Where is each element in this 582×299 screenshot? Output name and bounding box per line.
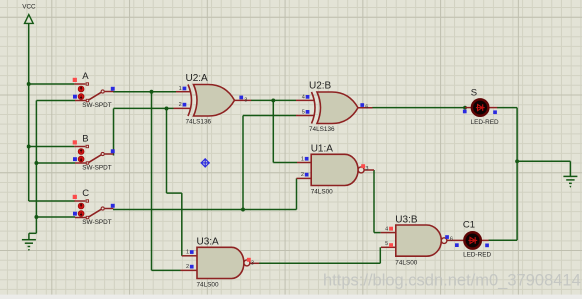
svg-text:LED-RED: LED-RED (463, 252, 491, 259)
svg-text:74LS00: 74LS00 (197, 282, 219, 289)
svg-text:74LS00: 74LS00 (395, 259, 417, 266)
svg-text:74LS136: 74LS136 (186, 119, 212, 126)
svg-text:SW-SPDT: SW-SPDT (82, 164, 111, 171)
svg-text:S: S (471, 87, 477, 98)
svg-text:5: 5 (385, 241, 388, 247)
svg-text:1: 1 (301, 156, 304, 162)
svg-text:2: 2 (186, 264, 189, 270)
svg-text:A: A (82, 71, 89, 82)
svg-text:LED-RED: LED-RED (471, 119, 499, 126)
svg-text:U1:A: U1:A (311, 144, 334, 155)
svg-text:74LS136: 74LS136 (309, 126, 335, 133)
svg-text:B: B (82, 134, 88, 145)
svg-text:https://blog.csdn.net/m0_37908: https://blog.csdn.net/m0_37908414 (323, 272, 581, 290)
svg-text:C: C (82, 188, 89, 199)
svg-text:1: 1 (186, 250, 189, 256)
svg-text:2: 2 (301, 172, 304, 178)
svg-text:74LS00: 74LS00 (311, 189, 333, 196)
svg-text:6: 6 (450, 236, 453, 242)
svg-text:U3:A: U3:A (197, 237, 220, 248)
svg-text:6: 6 (365, 105, 368, 111)
svg-text:SW-SPDT: SW-SPDT (82, 102, 111, 109)
svg-text:3: 3 (365, 166, 368, 172)
svg-text:2: 2 (179, 102, 182, 108)
svg-text:3: 3 (244, 98, 247, 104)
svg-text:3: 3 (251, 260, 254, 266)
svg-text:C1: C1 (463, 220, 475, 231)
svg-text:U2:B: U2:B (309, 81, 332, 92)
svg-text:4: 4 (385, 226, 388, 232)
svg-text:5: 5 (302, 109, 305, 115)
svg-text:4: 4 (302, 94, 305, 100)
svg-text:SW-SPDT: SW-SPDT (82, 219, 111, 226)
svg-text:U2:A: U2:A (186, 73, 209, 84)
svg-text:1: 1 (179, 86, 182, 92)
svg-text:VCC: VCC (22, 4, 36, 11)
svg-text:U3:B: U3:B (395, 214, 418, 225)
